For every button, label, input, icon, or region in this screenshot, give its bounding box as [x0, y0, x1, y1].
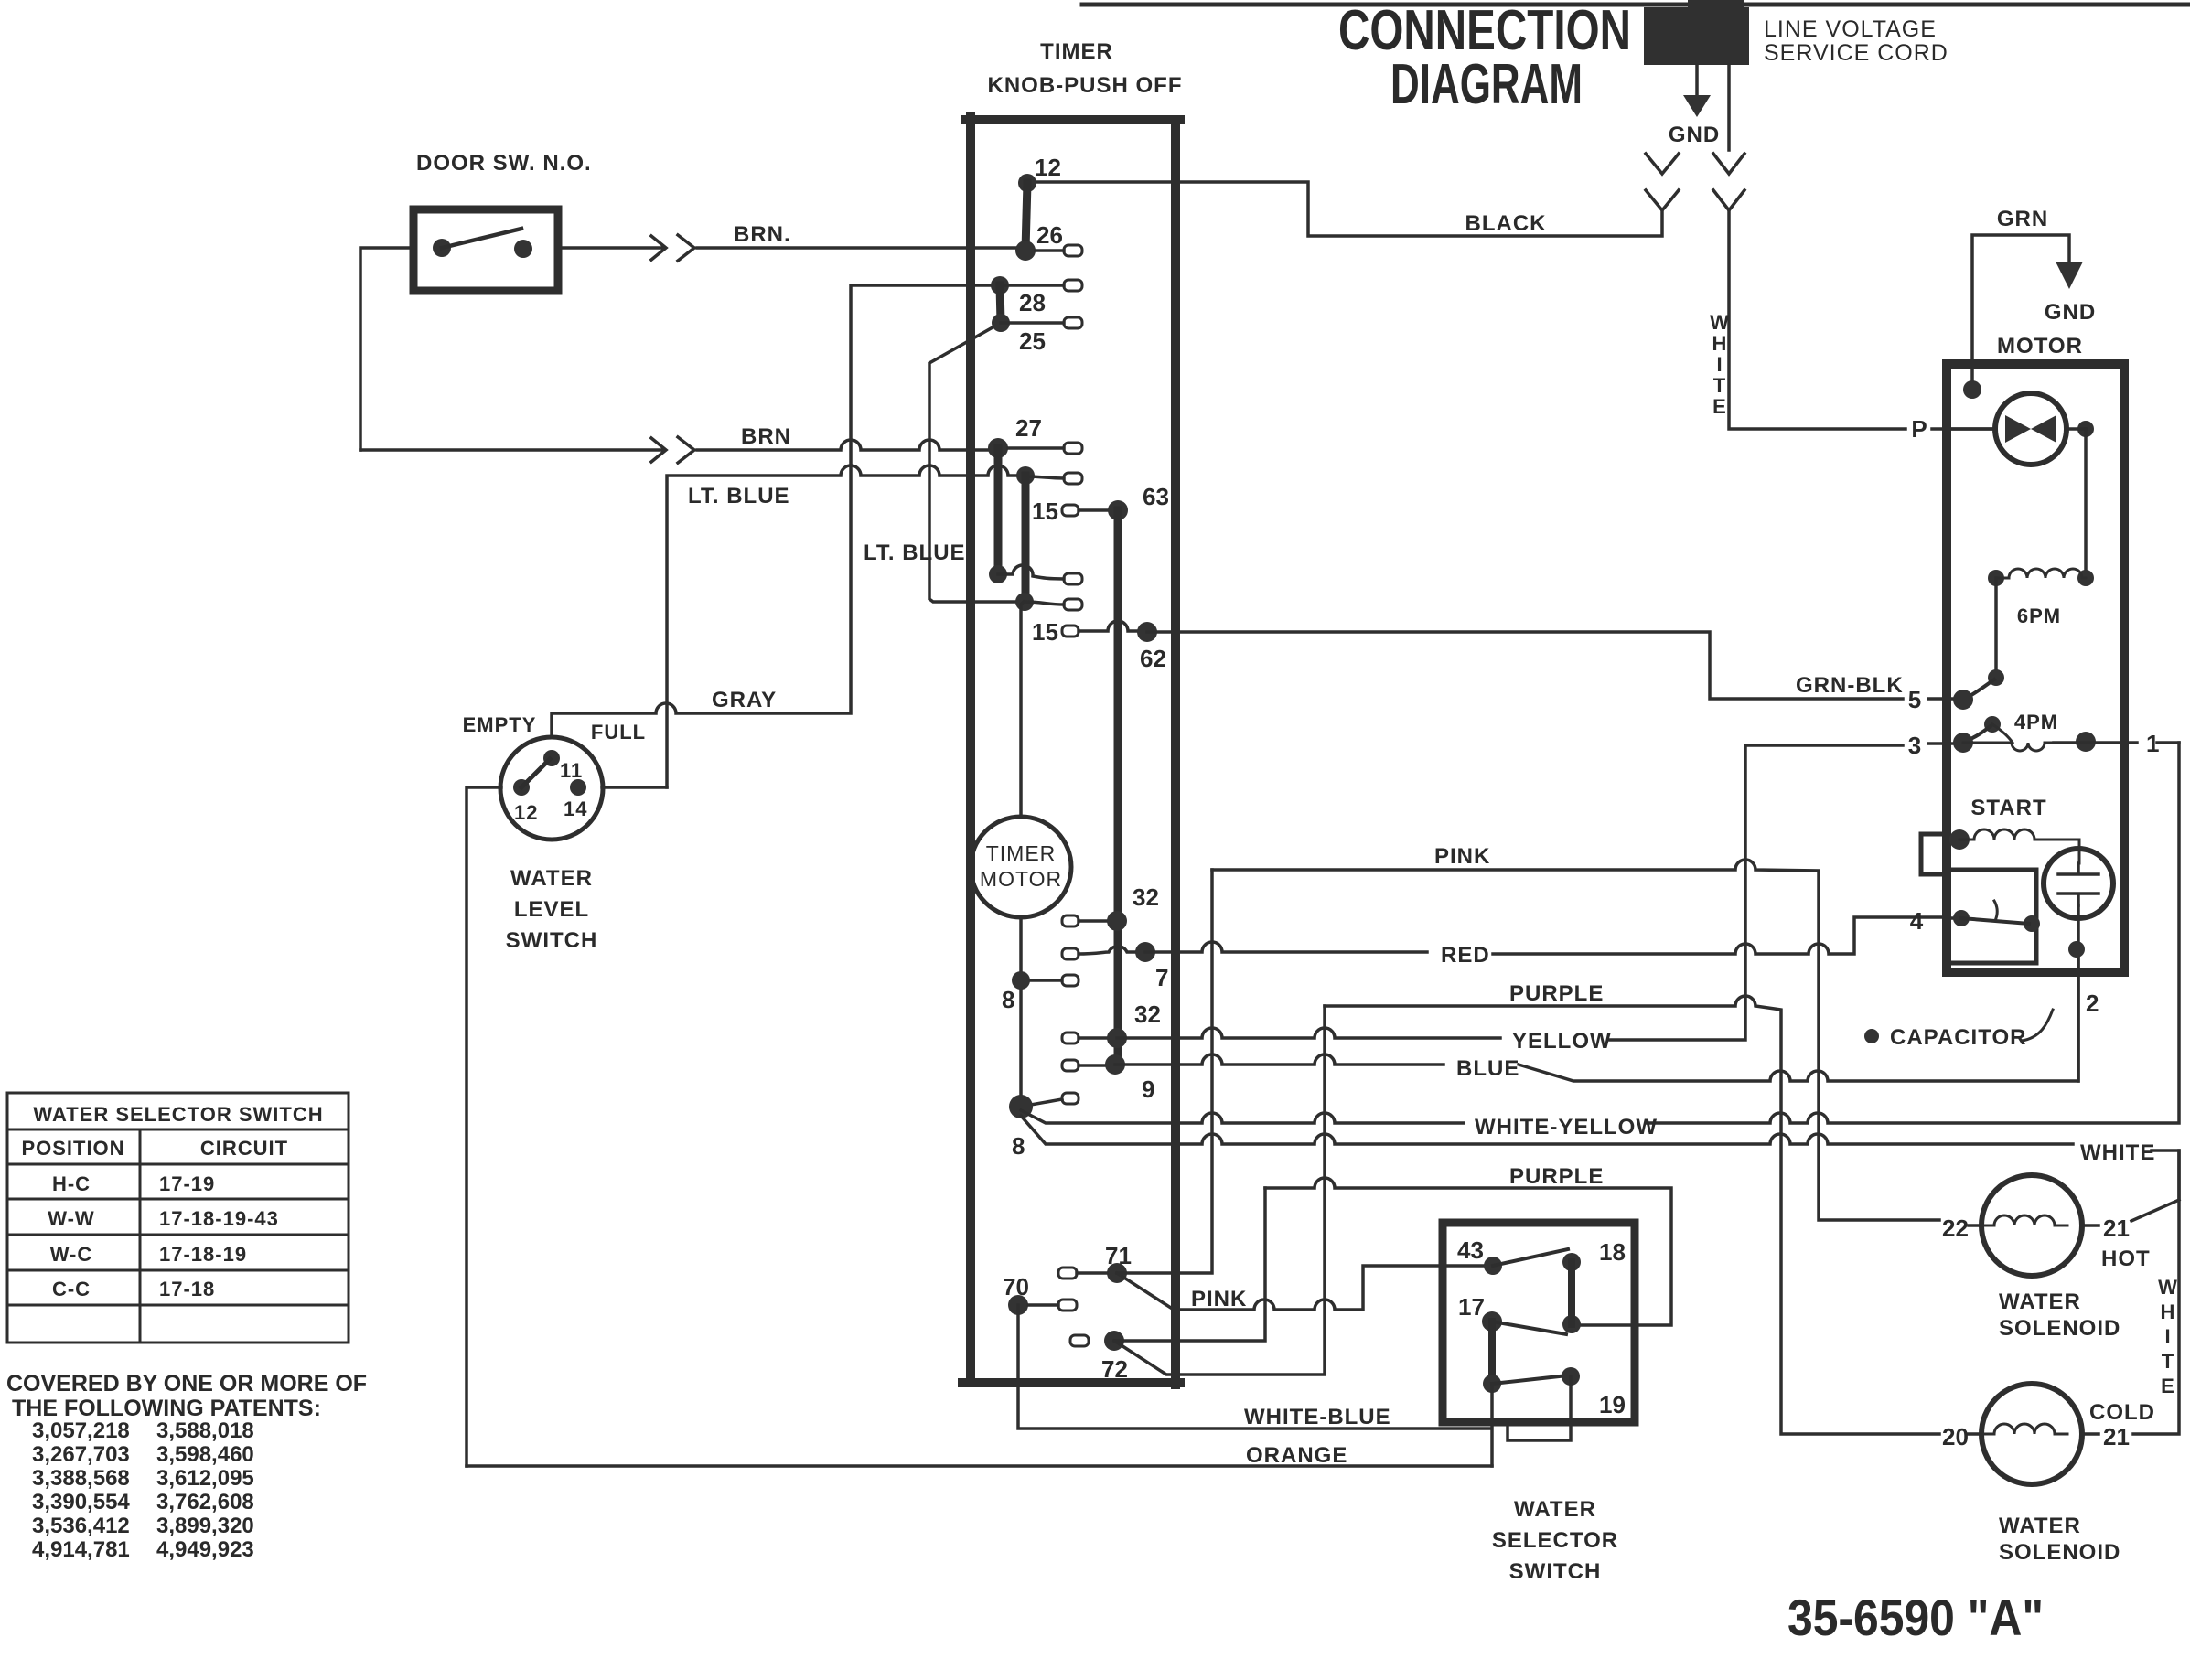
wire 3 into motor — [1928, 742, 1958, 745]
terminal tab 26 — [1064, 245, 1082, 256]
svg-text:43: 43 — [1457, 1236, 1484, 1264]
svg-text:SERVICE CORD: SERVICE CORD — [1764, 40, 1948, 66]
wire 71 to PINK riser — [1117, 870, 1212, 1273]
top border line — [1082, 3, 2190, 7]
wire WHITE from plug down to motor P — [1729, 210, 1906, 429]
chevron BRN 1 — [678, 235, 694, 261]
terminal tab 71 — [1058, 1268, 1077, 1279]
node 8 bottom big — [1009, 1095, 1033, 1118]
node 62 — [1137, 622, 1157, 642]
svg-text:8: 8 — [1012, 1132, 1025, 1160]
svg-text:63: 63 — [1143, 483, 1169, 510]
svg-text:32: 32 — [1134, 1001, 1161, 1028]
blade 17 — [1492, 1322, 1566, 1334]
svg-text:72: 72 — [1101, 1355, 1128, 1383]
wire BRN to timer 26 — [697, 246, 1025, 250]
patents note — [6, 1371, 367, 1562]
line voltage service cord black box — [1644, 7, 1749, 65]
cold right lead — [2082, 1432, 2099, 1436]
wire PURPLE upper — [1325, 996, 1939, 1434]
svg-text:3,267,703: 3,267,703 — [32, 1442, 130, 1467]
svg-text:THE FOLLOWING PATENTS:: THE FOLLOWING PATENTS: — [12, 1396, 321, 1421]
wire timer 25 diagonal to LT BLUE vertical — [929, 323, 1025, 602]
svg-text:17-18-19-43: 17-18-19-43 — [159, 1207, 279, 1230]
tab row 9 / BLUE — [1062, 1060, 1079, 1071]
door switch blade — [442, 229, 521, 248]
node 11 — [543, 750, 560, 766]
chevron BRN 2 — [678, 437, 694, 463]
solenoid HOT circle — [1981, 1175, 2082, 1276]
node 9 — [1105, 1054, 1125, 1075]
diagonal 72 to purple upper riser — [1114, 1006, 1325, 1375]
svg-text:WATER: WATER — [1999, 1514, 2081, 1538]
svg-text:12: 12 — [1035, 154, 1061, 181]
contact bar 18 — [1562, 1253, 1581, 1271]
svg-text:YELLOW: YELLOW — [1512, 1029, 1612, 1054]
label WATER SOLENOID hot — [1999, 1289, 2120, 1341]
label WATER SELECTOR SWITCH — [1492, 1497, 1618, 1584]
hot 21 diagonal to white — [2131, 1200, 2179, 1221]
svg-text:3,057,218: 3,057,218 — [32, 1418, 130, 1443]
wire BRN 2 from door return to timer 27 — [360, 438, 666, 462]
svg-text:4PM: 4PM — [2014, 711, 2058, 733]
motor ground bracket — [1972, 235, 2069, 390]
svg-text:62: 62 — [1140, 645, 1166, 672]
svg-text:17: 17 — [1458, 1293, 1485, 1321]
node 25 — [992, 314, 1010, 332]
wire 62 to GRN-BLK to motor 5 — [1147, 632, 1903, 699]
wire LT. BLUE from water level 14 to timer — [667, 465, 1025, 787]
terminal tab 72 — [1070, 1335, 1089, 1346]
svg-text:E: E — [2161, 1375, 2175, 1397]
svg-text:4: 4 — [1910, 907, 1924, 935]
node 26 — [1015, 241, 1036, 261]
svg-text:WATER: WATER — [510, 866, 593, 891]
svg-text:H-C: H-C — [52, 1172, 91, 1195]
tab row 8 timer motor — [1062, 975, 1079, 986]
svg-text:I: I — [1716, 353, 1723, 376]
svg-text:3,612,095: 3,612,095 — [156, 1466, 254, 1491]
svg-text:W: W — [2158, 1276, 2178, 1299]
label WATER SOLENOID cold — [1999, 1514, 2120, 1565]
svg-text:3,899,320: 3,899,320 — [156, 1514, 254, 1538]
svg-text:P: P — [1911, 415, 1927, 443]
wire P inside motor — [1947, 427, 1995, 431]
svg-text:WATER SELECTOR SWITCH: WATER SELECTOR SWITCH — [33, 1103, 323, 1126]
svg-text:COLD: COLD — [2089, 1400, 2155, 1425]
svg-text:GRAY: GRAY — [712, 688, 777, 712]
door switch box — [413, 209, 558, 291]
svg-text:POSITION: POSITION — [21, 1137, 124, 1160]
centrifugal switch contacts — [1994, 578, 1998, 669]
svg-text:32: 32 — [1133, 883, 1159, 911]
node 12 — [1018, 174, 1036, 192]
terminal tab — [1064, 573, 1082, 584]
svg-text:6PM: 6PM — [2017, 605, 2061, 627]
svg-text:PURPLE: PURPLE — [1509, 1164, 1604, 1189]
node 12 — [513, 779, 530, 796]
svg-text:5: 5 — [1908, 686, 1921, 713]
wire 1 into motor — [2124, 741, 2179, 744]
svg-text:TIMER: TIMER — [986, 841, 1057, 865]
svg-text:DOOR SW. N.O.: DOOR SW. N.O. — [416, 151, 592, 176]
water selector switch table — [7, 1093, 349, 1343]
node 63 — [1108, 500, 1128, 520]
svg-text:W-W: W-W — [48, 1207, 94, 1230]
tab row 7 / RED — [1062, 948, 1079, 959]
node 43 — [1484, 1257, 1502, 1275]
bar 17 down — [1488, 1322, 1496, 1384]
svg-text:LT. BLUE: LT. BLUE — [688, 484, 790, 508]
wire BLACK from timer 12 to plug — [1027, 182, 1662, 236]
svg-text:T: T — [2162, 1350, 2174, 1373]
water level switch circle — [500, 737, 603, 840]
svg-text:17-18-19: 17-18-19 — [159, 1243, 247, 1266]
timer box — [966, 116, 975, 1383]
svg-text:9: 9 — [1142, 1075, 1154, 1103]
label LINE VOLTAGE SERVICE CORD — [1764, 16, 1948, 66]
svg-text:21: 21 — [2103, 1423, 2130, 1450]
water selector switch box — [1443, 1223, 1635, 1422]
wire WHITE solenoid return upper — [1021, 1116, 2073, 1144]
node 72 — [1104, 1331, 1124, 1351]
terminal tab 70 — [1058, 1300, 1077, 1311]
water level switch blade — [521, 759, 550, 787]
svg-text:WHITE-YELLOW: WHITE-YELLOW — [1475, 1115, 1658, 1140]
svg-text:EMPTY: EMPTY — [463, 713, 537, 736]
tab row 32a — [1062, 915, 1079, 926]
MORE SECTIONS APPENDED BELOW — [962, 39, 2179, 1450]
capacitor lower lead — [2077, 905, 2080, 1081]
motor gnd node — [1963, 380, 1981, 399]
svg-text:3,588,018: 3,588,018 — [156, 1418, 254, 1443]
wire RED — [1145, 942, 1427, 952]
wire YELLOW — [1117, 1028, 1500, 1038]
wire WHITE-BLUE 70 to selector — [1018, 1305, 1489, 1429]
svg-text:SWITCH: SWITCH — [1509, 1559, 1602, 1584]
svg-text:GRN-BLK: GRN-BLK — [1796, 673, 1904, 698]
svg-text:21: 21 — [2103, 1215, 2130, 1242]
node 8 — [1012, 971, 1030, 990]
svg-text:25: 25 — [1019, 327, 1046, 355]
svg-text:8: 8 — [1002, 986, 1014, 1013]
svg-text:W-C: W-C — [50, 1243, 93, 1266]
bar 17 through box bottom to orange — [1490, 1384, 1494, 1466]
wire 72 to PURPLE lower riser — [1114, 1188, 1265, 1341]
timer motor circle — [971, 817, 1071, 917]
blade 43 — [1493, 1249, 1568, 1266]
cam bar 28-25 — [1000, 285, 1001, 322]
svg-text:3,388,568: 3,388,568 — [32, 1466, 130, 1491]
terminal tab 25 — [1064, 317, 1082, 328]
node below 27 — [989, 565, 1007, 583]
svg-text:KNOB-PUSH OFF: KNOB-PUSH OFF — [988, 73, 1183, 98]
svg-text:C-C: C-C — [52, 1278, 91, 1300]
terminal tab — [1064, 473, 1082, 484]
svg-text:22: 22 — [1942, 1215, 1969, 1242]
svg-text:GRN: GRN — [1997, 207, 2048, 231]
node right of main winding — [2077, 421, 2094, 437]
wire BLUE — [1115, 1054, 1444, 1065]
svg-text:E: E — [1712, 395, 1727, 418]
svg-text:LT. BLUE: LT. BLUE — [864, 540, 966, 565]
svg-text:RED: RED — [1441, 943, 1490, 968]
svg-text:3: 3 — [1908, 732, 1921, 759]
cam bar 15 — [1022, 476, 1030, 602]
svg-text:FULL: FULL — [591, 721, 646, 744]
timer motor vertical lower — [1019, 917, 1023, 1107]
svg-text:3,390,554: 3,390,554 — [32, 1490, 130, 1514]
svg-text:START: START — [1970, 796, 2046, 820]
svg-text:14: 14 — [564, 797, 587, 820]
capacitor circle — [2044, 849, 2113, 918]
node 14 — [570, 779, 586, 796]
svg-text:CAPACITOR: CAPACITOR — [1890, 1025, 2026, 1050]
run winding coil at 3 — [1963, 743, 2054, 751]
wire water level 14 stub — [602, 786, 667, 789]
wire PINK top — [1212, 860, 1939, 1220]
svg-text:7: 7 — [1155, 964, 1168, 991]
node 15 bottom — [1015, 593, 1034, 611]
svg-text:19: 19 — [1599, 1391, 1626, 1418]
wire water level 12 down to ORANGE run — [467, 787, 501, 1466]
svg-text:MOTOR: MOTOR — [1997, 334, 2083, 358]
wire node to tab — [998, 565, 1064, 579]
svg-text:BLACK: BLACK — [1465, 211, 1547, 236]
wire GRAY from timer 28 to water level 11 — [552, 285, 1000, 737]
svg-text:17-19: 17-19 — [159, 1172, 215, 1195]
node 3 — [1953, 733, 1973, 753]
solenoid COLD circle — [1981, 1384, 2082, 1484]
cam bar 12-26 — [1025, 183, 1027, 250]
wire PURPLE lower — [1265, 1178, 1671, 1325]
svg-text:35-6590 "A": 35-6590 "A" — [1787, 1589, 2044, 1646]
svg-text:CIRCUIT: CIRCUIT — [200, 1137, 288, 1160]
svg-text:27: 27 — [1015, 414, 1042, 442]
ground arrow motor — [2056, 262, 2083, 289]
svg-text:LINE VOLTAGE: LINE VOLTAGE — [1764, 16, 1937, 42]
svg-text:BRN: BRN — [741, 424, 791, 449]
node 5 — [1953, 690, 1973, 710]
svg-text:PINK: PINK — [1191, 1287, 1247, 1311]
svg-text:I: I — [2164, 1325, 2171, 1348]
svg-text:70: 70 — [1003, 1273, 1029, 1300]
svg-text:3,536,412: 3,536,412 — [32, 1514, 130, 1538]
node 7 — [1135, 942, 1155, 962]
protrusion box left — [1921, 834, 1947, 874]
node 28 — [991, 276, 1009, 294]
svg-text:ORANGE: ORANGE — [1246, 1443, 1347, 1468]
svg-text:28: 28 — [1019, 289, 1046, 316]
terminal tab 28 — [1064, 280, 1082, 291]
node 71 — [1107, 1263, 1127, 1283]
capacitor leader line — [2022, 1010, 2053, 1041]
main winding bowtie — [2005, 415, 2056, 443]
svg-text:WATER: WATER — [1514, 1497, 1596, 1522]
svg-text:PURPLE: PURPLE — [1509, 981, 1604, 1006]
inner start switch box — [1947, 870, 2036, 963]
svg-text:71: 71 — [1105, 1242, 1132, 1269]
white return vertical — [2133, 1150, 2179, 1434]
svg-text:BLUE: BLUE — [1456, 1056, 1519, 1081]
plug connector chevrons right column — [1727, 65, 1731, 150]
cam bar 27 — [994, 448, 1003, 574]
wire PINK lower to selector 43 — [1174, 1266, 1484, 1310]
svg-text:15: 15 — [1032, 498, 1058, 525]
svg-text:3,598,460: 3,598,460 — [156, 1442, 254, 1467]
svg-text:18: 18 — [1599, 1238, 1626, 1266]
svg-text:COVERED BY ONE OR MORE OF: COVERED BY ONE OR MORE OF — [6, 1371, 367, 1396]
start winding — [1949, 829, 1970, 850]
solenoid 22 lead — [1969, 1224, 1981, 1227]
svg-text:HOT: HOT — [2101, 1247, 2151, 1271]
svg-text:11: 11 — [560, 759, 583, 782]
svg-text:17-18: 17-18 — [159, 1278, 215, 1300]
svg-text:15: 15 — [1032, 618, 1058, 646]
svg-text:SELECTOR: SELECTOR — [1492, 1528, 1618, 1553]
svg-text:26: 26 — [1036, 221, 1063, 249]
solenoid 20 lead — [1969, 1432, 1981, 1436]
plug connector chevrons left column — [1646, 154, 1679, 174]
node 27 — [988, 438, 1008, 458]
motor box — [1947, 364, 2124, 972]
node 70 — [1008, 1295, 1028, 1315]
node 15 top — [1016, 466, 1035, 485]
svg-text:BRN.: BRN. — [734, 222, 791, 247]
wire ORANGE long bottom run — [467, 1464, 1492, 1468]
wire door switch to BRN arrow — [558, 236, 666, 260]
svg-text:SOLENOID: SOLENOID — [1999, 1540, 2120, 1565]
svg-text:GND: GND — [2045, 300, 2096, 325]
svg-text:SWITCH: SWITCH — [506, 928, 598, 953]
capacitor node 2 — [2068, 941, 2085, 958]
vertical main to 6PM winding — [2084, 429, 2088, 578]
timer label — [988, 39, 1183, 98]
ground lead with arrow — [1695, 65, 1699, 95]
title CONNECTION DIAGRAM — [1338, 0, 1631, 116]
svg-text:2: 2 — [2086, 990, 2099, 1017]
svg-text:WHITE: WHITE — [2080, 1140, 2155, 1165]
svg-text:LEVEL: LEVEL — [514, 897, 589, 922]
svg-text:WATER: WATER — [1999, 1289, 2081, 1314]
svg-text:H: H — [1712, 332, 1728, 355]
wire WHITE-YELLOW — [1021, 1110, 1464, 1123]
svg-text:1: 1 — [2146, 730, 2159, 757]
svg-text:W: W — [1710, 311, 1730, 334]
node 32b — [1107, 1028, 1127, 1048]
wire door switch left return — [360, 248, 413, 450]
hot right lead — [2082, 1224, 2099, 1227]
svg-text:GND: GND — [1669, 123, 1720, 147]
svg-text:20: 20 — [1942, 1423, 1969, 1450]
node 17 — [1482, 1311, 1502, 1332]
wire 4 into motor — [1947, 916, 1961, 920]
svg-text:3,762,608: 3,762,608 — [156, 1490, 254, 1514]
svg-text:WHITE-BLUE: WHITE-BLUE — [1244, 1405, 1391, 1429]
svg-text:MOTOR: MOTOR — [980, 867, 1062, 891]
svg-text:DIAGRAM: DIAGRAM — [1390, 53, 1583, 116]
tab row 32b / YELLOW — [1062, 1033, 1079, 1043]
svg-text:PINK: PINK — [1434, 844, 1490, 869]
6PM winding — [1988, 570, 2004, 586]
svg-text:TIMER: TIMER — [1040, 39, 1113, 64]
terminal tab 27 — [1064, 443, 1082, 454]
terminal tab row near node 8 — [1062, 1093, 1079, 1104]
svg-text:12: 12 — [514, 801, 538, 824]
timer motor vertical upper — [1021, 602, 1024, 817]
blade lower to 19 — [1492, 1375, 1568, 1384]
node 32a on bar — [1107, 911, 1127, 931]
diagonal 71 to lower pink — [1117, 1273, 1174, 1310]
door switch contacts — [433, 239, 451, 257]
svg-text:SOLENOID: SOLENOID — [1999, 1316, 2120, 1341]
svg-text:H: H — [2161, 1300, 2176, 1323]
svg-text:4,949,923: 4,949,923 — [156, 1537, 254, 1562]
capacitor plates — [2058, 863, 2099, 905]
switch blades at 5 and 3 — [1963, 679, 1994, 700]
svg-text:T: T — [1713, 374, 1726, 397]
main winding circle — [1995, 393, 2067, 465]
19 hook below box — [1508, 1376, 1571, 1440]
terminal tab — [1064, 599, 1082, 610]
node right of run coil — [2076, 732, 2096, 752]
cam bar 63 long — [1114, 510, 1122, 1065]
svg-text:4,914,781: 4,914,781 — [32, 1537, 130, 1562]
label CAPACITOR — [1864, 1029, 1879, 1043]
